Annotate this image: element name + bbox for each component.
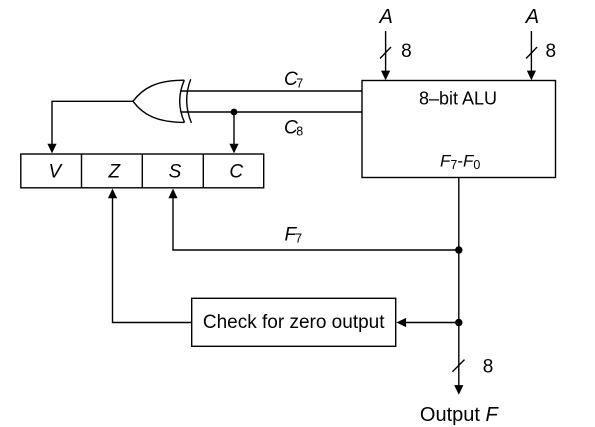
svg-text:Output F: Output F [420,404,500,426]
svg-text:8–bit ALU: 8–bit ALU [419,89,497,109]
flag register box row [21,154,264,188]
wire bus to zero-check input [396,318,458,327]
wire C8 junction to C flag [229,112,238,153]
XOR gate U2 [133,79,191,123]
zero-check box [192,298,396,346]
svg-text:Z: Z [107,162,121,183]
wire zero-check output to Z flag [108,189,192,323]
svg-text:8: 8 [483,357,494,378]
input bus A left: wire [381,31,390,80]
wire F7 to S flag [168,189,458,250]
wire C7 [181,90,363,92]
svg-text:8: 8 [546,41,557,62]
wire C8 [181,111,363,113]
svg-text:A: A [379,6,393,28]
ALU U1 box [362,81,556,178]
wire ALU output F (vertical bus) [454,178,463,395]
svg-text:C: C [229,162,243,183]
svg-text:8: 8 [401,41,412,62]
junction zero-check tap [455,319,462,326]
input bus A right: wire [527,31,536,80]
bus-width slash (right A bus) [526,47,537,59]
svg-text:Check for zero output: Check for zero output [203,312,385,333]
bus-width slash (left A bus) [380,47,391,59]
bus-width slash (output bus) [452,360,464,372]
junction on C8 (node to C flag) [231,109,238,116]
junction F7 tap [455,246,462,253]
svg-text:A: A [525,6,539,28]
wire XOR output to V flag [47,101,133,153]
svg-text:S: S [169,162,182,183]
